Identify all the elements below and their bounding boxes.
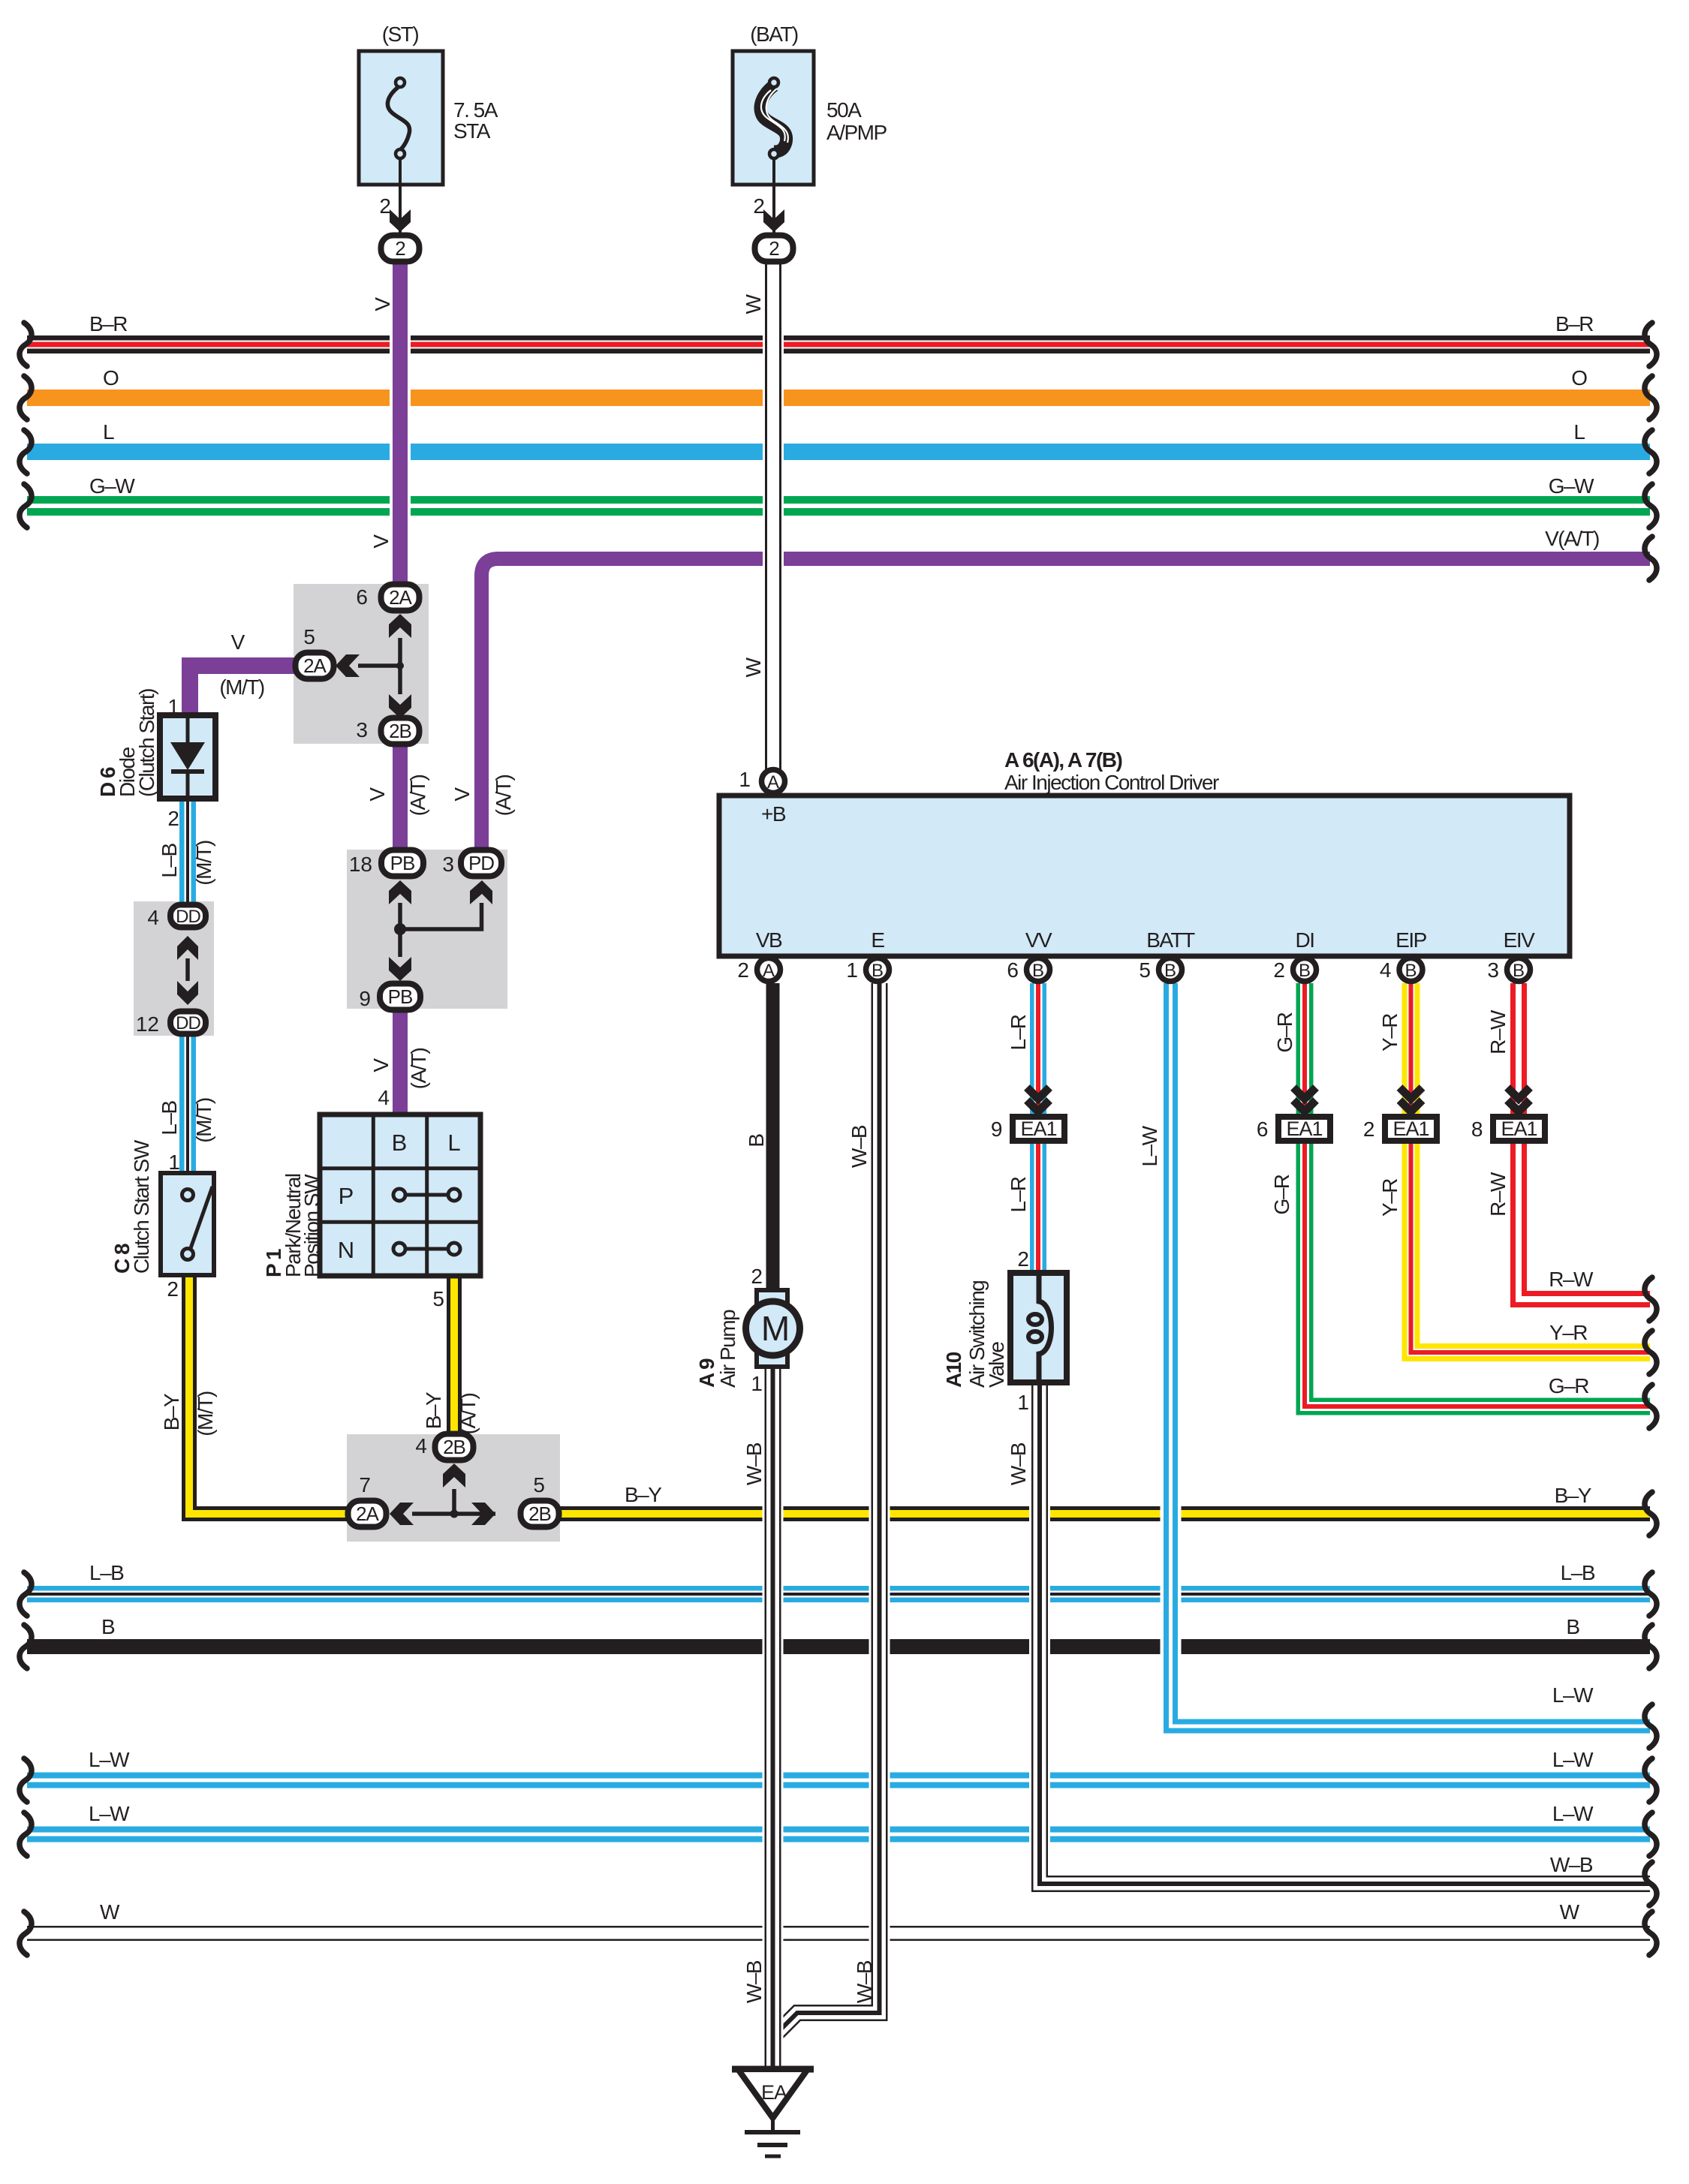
- wire break symbol right: [1645, 376, 1657, 420]
- svg-text:L–W: L–W: [1552, 1748, 1594, 1771]
- svg-text:G–W: G–W: [1549, 474, 1594, 498]
- svg-text:B: B: [872, 961, 884, 981]
- wire break symbol right: [1645, 1277, 1657, 1321]
- pin circle B: [1399, 958, 1423, 982]
- svg-text:R–W: R–W: [1486, 1172, 1510, 1217]
- svg-text:B: B: [1404, 961, 1417, 981]
- svg-text:Clutch Start SW: Clutch Start SW: [130, 1139, 153, 1274]
- junction block box DD: [134, 901, 214, 1036]
- svg-text:B: B: [1513, 961, 1525, 981]
- svg-text:L–W: L–W: [1552, 1683, 1594, 1707]
- svg-text:2B: 2B: [443, 1436, 465, 1458]
- svg-text:L–W: L–W: [89, 1802, 130, 1825]
- svg-text:E: E: [871, 928, 884, 952]
- svg-text:V: V: [450, 787, 474, 802]
- svg-text:18: 18: [349, 853, 372, 876]
- junction node: [394, 923, 406, 935]
- svg-text:1: 1: [168, 1151, 180, 1174]
- arrow into DD 12: [177, 981, 198, 1005]
- svg-text:1: 1: [739, 768, 751, 791]
- svg-text:EA1: EA1: [1392, 1118, 1429, 1140]
- junction block box PB/PD: [347, 850, 507, 1009]
- wire junction link PB box: [398, 903, 402, 957]
- wire junction link upper box: [398, 638, 402, 694]
- svg-text:L: L: [103, 420, 115, 444]
- svg-text:2: 2: [379, 194, 391, 218]
- wire B from VB to air pump: [766, 983, 780, 1292]
- svg-text:B: B: [1566, 1615, 1580, 1638]
- svg-text:6: 6: [1007, 958, 1019, 982]
- svg-text:V: V: [369, 534, 393, 549]
- svg-text:L–W: L–W: [89, 1748, 130, 1771]
- svg-text:1: 1: [167, 695, 179, 718]
- svg-text:Y–R: Y–R: [1378, 1014, 1401, 1051]
- svg-text:W–B: W–B: [742, 1442, 766, 1485]
- svg-text:W–B: W–B: [853, 1960, 876, 2003]
- svg-text:5: 5: [533, 1473, 545, 1497]
- wire break symbol right: [1645, 1492, 1657, 1536]
- connector 2A pin 7: [348, 1501, 387, 1527]
- svg-text:B–Y: B–Y: [160, 1393, 183, 1430]
- svg-text:2: 2: [769, 237, 779, 260]
- svg-text:V: V: [371, 297, 394, 311]
- svg-text:A 6(A), A 7(B): A 6(A), A 7(B): [1004, 748, 1122, 772]
- svg-text:4: 4: [415, 1434, 427, 1458]
- wire break symbol left: [20, 430, 32, 474]
- pin 1 A (+B): [762, 770, 785, 793]
- svg-text:(M/T): (M/T): [192, 1098, 215, 1143]
- wire break symbol right: [1645, 1625, 1657, 1668]
- arrow into PD 3: [470, 880, 492, 904]
- svg-text:PD: PD: [468, 852, 494, 874]
- connector 2A pin 6: [381, 585, 420, 611]
- connector DD pin 4: [170, 905, 206, 928]
- svg-text:R–W: R–W: [1549, 1268, 1594, 1291]
- svg-text:A/PMP: A/PMP: [826, 121, 887, 144]
- svg-text:W: W: [742, 657, 765, 677]
- svg-text:B–Y: B–Y: [625, 1483, 662, 1506]
- svg-text:L–B: L–B: [158, 1101, 181, 1136]
- svg-text:2B: 2B: [389, 720, 411, 742]
- svg-text:W–B: W–B: [742, 1960, 766, 2003]
- connector PD pin 3: [461, 850, 501, 877]
- svg-text:G–R: G–R: [1273, 1012, 1296, 1052]
- svg-text:8: 8: [1471, 1118, 1483, 1141]
- svg-text:B: B: [1164, 961, 1176, 981]
- svg-text:9: 9: [359, 987, 371, 1010]
- svg-text:5: 5: [432, 1287, 444, 1310]
- double arrow into EA1: [1293, 1087, 1316, 1099]
- svg-text:2: 2: [167, 807, 179, 830]
- connector PB pin 9: [380, 984, 420, 1010]
- connector EA1: [1385, 1117, 1437, 1141]
- double arrow into EA1: [1507, 1087, 1530, 1099]
- arrow into 2B top: [443, 1464, 465, 1488]
- pin circle B: [1159, 958, 1182, 982]
- svg-text:DD: DD: [176, 907, 200, 927]
- wire R-W from EA1 to right: [1519, 1142, 1650, 1299]
- svg-text:DD: DD: [176, 1013, 200, 1033]
- arrow into PB 9: [389, 957, 411, 981]
- svg-text:(A/T): (A/T): [407, 1048, 430, 1089]
- svg-text:B: B: [101, 1615, 116, 1638]
- svg-text:2: 2: [751, 1265, 763, 1288]
- svg-text:A: A: [763, 961, 775, 981]
- svg-text:Air Pump: Air Pump: [716, 1310, 739, 1388]
- svg-text:EA1: EA1: [1286, 1118, 1322, 1140]
- svg-text:2: 2: [1363, 1118, 1375, 1141]
- arrow into 2A: [390, 1503, 414, 1525]
- svg-text:VB: VB: [756, 928, 782, 952]
- svg-text:L–B: L–B: [1561, 1561, 1595, 1584]
- N contact: [405, 1247, 448, 1251]
- wire B-Y from P1 pin5: [447, 1276, 462, 1448]
- wire W-B from air pump to ground: [763, 1368, 784, 2069]
- svg-text:P: P: [339, 1183, 354, 1209]
- svg-text:3: 3: [1487, 958, 1499, 982]
- svg-text:(M/T): (M/T): [192, 841, 215, 886]
- svg-text:STA: STA: [453, 119, 491, 143]
- svg-text:G–W: G–W: [89, 474, 135, 498]
- svg-text:2: 2: [753, 194, 765, 218]
- svg-text:V(A/T): V(A/T): [1545, 527, 1599, 550]
- svg-text:2B: 2B: [528, 1503, 551, 1525]
- svg-text:W: W: [742, 293, 765, 314]
- double arrow into EA1: [1027, 1087, 1049, 1099]
- svg-text:B–R: B–R: [1555, 312, 1593, 335]
- solenoid valve A10 Air Switching Valve: [1010, 1273, 1067, 1382]
- wire break symbol left: [20, 1572, 32, 1616]
- P contact: [405, 1193, 448, 1197]
- svg-text:2A: 2A: [303, 654, 327, 677]
- switch C8 Clutch Start SW: [161, 1173, 214, 1275]
- wire V(A/T) bus and vertical to PD: [482, 559, 1651, 856]
- wire Y-R from EA1 to right: [1411, 1142, 1651, 1352]
- arrow into DD 4: [177, 936, 198, 960]
- svg-text:VV: VV: [1025, 928, 1052, 952]
- svg-text:B: B: [745, 1134, 768, 1148]
- svg-text:5: 5: [303, 625, 315, 648]
- wire W from fuse BAT down to +B: [763, 263, 784, 769]
- svg-text:+B: +B: [761, 802, 786, 826]
- pin circle B: [1027, 958, 1050, 982]
- svg-text:L: L: [447, 1130, 460, 1156]
- wire break symbol right: [1645, 1385, 1657, 1428]
- wire break symbol right: [1645, 1758, 1657, 1802]
- ground EA: [732, 2066, 814, 2073]
- wire W-B from valve to right: [1029, 1384, 1050, 1884]
- wire break symbol right: [1645, 1704, 1657, 1748]
- wire break symbol right: [1645, 1862, 1657, 1906]
- svg-text:2: 2: [167, 1277, 179, 1301]
- wire break symbol left: [20, 1812, 32, 1856]
- svg-text:N: N: [338, 1237, 354, 1263]
- pin circle B: [1507, 958, 1531, 982]
- svg-text:V: V: [231, 630, 245, 654]
- wire R-W from EIV to EA1: [1510, 983, 1527, 1115]
- wire break symbol left: [20, 1912, 32, 1955]
- wire L-B diode to DD: [179, 799, 196, 907]
- wire L-B bus: [27, 1586, 1650, 1602]
- svg-text:W–B: W–B: [848, 1125, 871, 1168]
- connector pin oval 2 (BAT): [755, 236, 793, 262]
- svg-text:A10: A10: [942, 1352, 965, 1388]
- svg-text:(A/T): (A/T): [406, 775, 429, 816]
- svg-text:B–R: B–R: [89, 312, 127, 335]
- wire break symbol right: [1645, 537, 1657, 580]
- svg-text:Air Injection Control Driver: Air Injection Control Driver: [1004, 771, 1219, 794]
- svg-text:2A: 2A: [389, 586, 412, 609]
- wire B-Y from C8 to connector 2A: [189, 1275, 350, 1514]
- svg-text:O: O: [103, 366, 119, 390]
- svg-text:3: 3: [442, 853, 454, 876]
- connector 2A pin 5: [296, 653, 334, 679]
- ECU A6(A)/A7(B) Air Injection Control Driver: [719, 796, 1570, 956]
- connector EA1: [1013, 1117, 1064, 1141]
- svg-text:L–R: L–R: [1007, 1177, 1030, 1212]
- svg-text:W–B: W–B: [1550, 1853, 1593, 1876]
- svg-text:4: 4: [378, 1086, 390, 1109]
- connector 2B pin 4: [435, 1434, 474, 1461]
- svg-text:4: 4: [147, 906, 159, 929]
- switch P1 Park/Neutral Position SW: [320, 1115, 480, 1276]
- svg-text:W–B: W–B: [1007, 1442, 1030, 1485]
- svg-text:L–W: L–W: [1138, 1125, 1161, 1166]
- wire junction link lower box: [452, 1489, 456, 1514]
- svg-text:Position SW: Position SW: [300, 1174, 324, 1277]
- svg-text:G–R: G–R: [1270, 1175, 1293, 1214]
- svg-text:EIV: EIV: [1504, 928, 1535, 952]
- svg-text:Y–R: Y–R: [1549, 1321, 1587, 1344]
- wire G-W bus: [27, 496, 1650, 516]
- svg-text:EA1: EA1: [1501, 1118, 1537, 1140]
- svg-text:EIP: EIP: [1395, 928, 1426, 952]
- svg-text:7: 7: [359, 1473, 371, 1497]
- arrow into 2A left: [336, 654, 360, 677]
- wire V from 2B to PB: [393, 732, 408, 856]
- wire B-R bus: [27, 335, 1650, 353]
- pin circle B: [866, 958, 890, 982]
- svg-text:PB: PB: [390, 852, 415, 874]
- arrow into 2B: [389, 694, 411, 718]
- wire B bus: [27, 1639, 1650, 1654]
- svg-text:Y–R: Y–R: [1378, 1179, 1401, 1217]
- svg-text:6: 6: [356, 585, 368, 609]
- svg-text:L–R: L–R: [1007, 1015, 1030, 1050]
- wire V (A/T) from PB to P1: [393, 1009, 408, 1118]
- svg-text:9: 9: [991, 1118, 1003, 1141]
- wire O bus: [27, 390, 1650, 406]
- motor A9 Air Pump: [757, 1290, 787, 1305]
- svg-text:2: 2: [1017, 1247, 1029, 1271]
- svg-text:B: B: [1032, 961, 1044, 981]
- svg-text:1: 1: [751, 1372, 763, 1395]
- svg-text:50A: 50A: [826, 98, 862, 122]
- svg-text:L–W: L–W: [1552, 1802, 1594, 1825]
- wire break symbol left: [20, 323, 32, 366]
- svg-text:(BAT): (BAT): [750, 23, 798, 46]
- svg-text:(M/T): (M/T): [219, 675, 264, 699]
- connector 2B pin 5: [521, 1501, 559, 1527]
- svg-text:G–R: G–R: [1549, 1374, 1588, 1397]
- wire break symbol right: [1645, 323, 1657, 366]
- wire break symbol right: [1645, 1812, 1657, 1856]
- svg-text:2: 2: [395, 237, 405, 260]
- svg-text:(A/T): (A/T): [456, 1393, 480, 1434]
- svg-text:(A/T): (A/T): [492, 775, 515, 816]
- svg-text:BATT: BATT: [1146, 928, 1195, 952]
- wire V from fuse ST down: [390, 263, 411, 600]
- svg-text:B–Y: B–Y: [422, 1391, 445, 1429]
- svg-text:W: W: [1560, 1900, 1580, 1924]
- arrow into 2A: [389, 614, 411, 638]
- svg-text:B: B: [392, 1130, 408, 1156]
- wire G-R from DI to EA1: [1296, 983, 1314, 1115]
- wire break symbol left: [20, 484, 32, 528]
- junction node: [450, 1510, 459, 1518]
- svg-text:4: 4: [1380, 958, 1392, 982]
- svg-text:V: V: [366, 787, 389, 802]
- wire break symbol right: [1645, 1572, 1657, 1616]
- junction block box 2A/2B upper: [294, 584, 429, 744]
- svg-text:1: 1: [1017, 1391, 1029, 1414]
- svg-text:W: W: [100, 1900, 120, 1924]
- svg-text:M: M: [761, 1309, 790, 1348]
- svg-text:B: B: [1299, 961, 1311, 981]
- junction node: [396, 662, 404, 669]
- svg-text:EA: EA: [761, 2081, 787, 2104]
- svg-text:L–B: L–B: [158, 844, 181, 878]
- wire break symbol right: [1645, 484, 1657, 528]
- svg-text:2: 2: [1273, 958, 1285, 982]
- svg-text:7. 5A: 7. 5A: [453, 98, 498, 122]
- svg-text:6: 6: [1257, 1118, 1269, 1141]
- fusible link (BAT) 50A A/PMP: [733, 51, 814, 185]
- wire Y-R from EIP to EA1: [1402, 983, 1420, 1115]
- wire break symbol left: [20, 1625, 32, 1668]
- svg-text:L: L: [1573, 420, 1585, 444]
- wire L-W bus 1: [27, 1773, 1650, 1788]
- arrow into PB 18: [389, 880, 411, 904]
- svg-text:DI: DI: [1296, 928, 1314, 952]
- connector EA1: [1278, 1117, 1330, 1141]
- svg-text:1: 1: [846, 958, 858, 982]
- connector pin oval 2 (ST): [381, 236, 420, 262]
- svg-text:A: A: [767, 772, 779, 793]
- svg-text:2A: 2A: [356, 1503, 379, 1525]
- svg-text:PB: PB: [388, 985, 413, 1008]
- svg-text:(ST): (ST): [382, 23, 419, 46]
- svg-text:L–B: L–B: [89, 1561, 124, 1584]
- double arrow into EA1: [1400, 1087, 1423, 1099]
- diode D6 (Clutch Start): [160, 715, 215, 799]
- svg-text:(Clutch Start): (Clutch Start): [135, 689, 158, 797]
- wire B-Y bus right: [558, 1506, 1650, 1521]
- wire V (M/T) branch to diode: [190, 666, 304, 715]
- svg-text:V: V: [369, 1058, 393, 1072]
- wire L-W from BATT pin: [1161, 983, 1182, 1726]
- pin circle A: [757, 958, 781, 982]
- pin circle B: [1293, 958, 1317, 982]
- wire break symbol right: [1645, 1912, 1657, 1955]
- svg-text:Valve: Valve: [985, 1342, 1008, 1388]
- wire break symbol left: [20, 1758, 32, 1802]
- wire break symbol left: [20, 376, 32, 420]
- junction block box 2A/2B lower: [347, 1434, 560, 1542]
- wire L-B DD to clutch switch: [179, 1032, 196, 1173]
- connector EA1: [1493, 1117, 1545, 1141]
- wire L bus: [27, 444, 1650, 460]
- wire L-R from VV to EA1: [1030, 983, 1046, 1115]
- svg-text:O: O: [1571, 366, 1588, 390]
- svg-text:2: 2: [737, 958, 749, 982]
- wire break symbol right: [1645, 430, 1657, 474]
- wire G-R from EA1 to right: [1305, 1142, 1650, 1406]
- wire L-R from EA1 to valve: [1030, 1142, 1046, 1274]
- svg-text:5: 5: [1139, 958, 1151, 982]
- svg-text:3: 3: [356, 718, 368, 742]
- wire W-B from E pin to ground: [778, 983, 880, 2032]
- wire junction link DD box: [185, 958, 190, 981]
- connector 2B pin 3: [381, 718, 420, 745]
- svg-text:A 9: A 9: [695, 1358, 718, 1388]
- wire L-W bus 2: [27, 1827, 1650, 1843]
- connector DD pin 12: [170, 1012, 206, 1034]
- svg-text:EA1: EA1: [1020, 1118, 1056, 1140]
- svg-text:B–Y: B–Y: [1555, 1484, 1592, 1507]
- svg-text:R–W: R–W: [1486, 1009, 1510, 1054]
- svg-text:(M/T): (M/T): [194, 1391, 217, 1436]
- fuse (ST) 7.5A STA: [359, 51, 443, 185]
- connector PB pin 18: [381, 850, 423, 877]
- arrow into 2B right: [471, 1503, 495, 1525]
- svg-text:12: 12: [136, 1012, 159, 1036]
- wire W bus: [27, 1926, 1650, 1941]
- wire break symbol right: [1645, 1331, 1657, 1374]
